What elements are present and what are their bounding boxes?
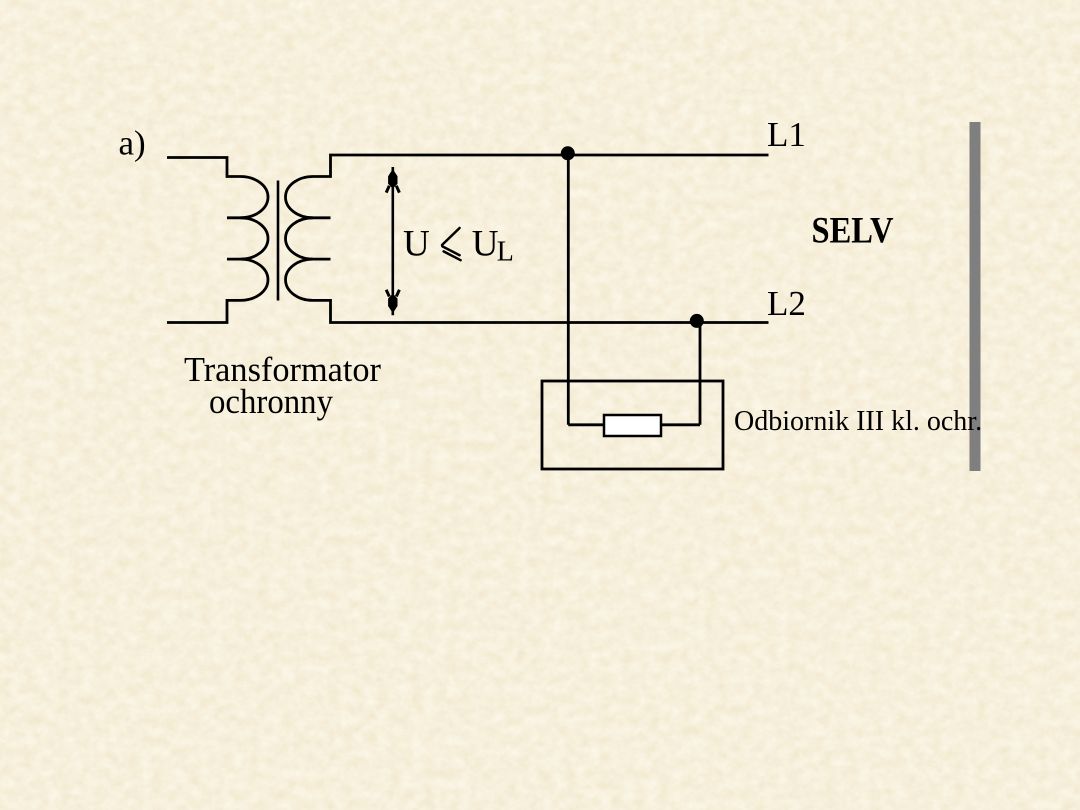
- svg-text:U: U: [403, 223, 430, 264]
- svg-text:a): a): [119, 124, 146, 163]
- svg-text:L2: L2: [767, 284, 806, 323]
- svg-text:ochronny: ochronny: [209, 382, 333, 421]
- svg-text:L1: L1: [767, 115, 806, 154]
- svg-text:L: L: [497, 237, 514, 268]
- svg-text:Odbiornik III kl. ochr.: Odbiornik III kl. ochr.: [734, 406, 982, 437]
- svg-text:U: U: [472, 223, 499, 264]
- svg-text:SELV: SELV: [812, 211, 894, 252]
